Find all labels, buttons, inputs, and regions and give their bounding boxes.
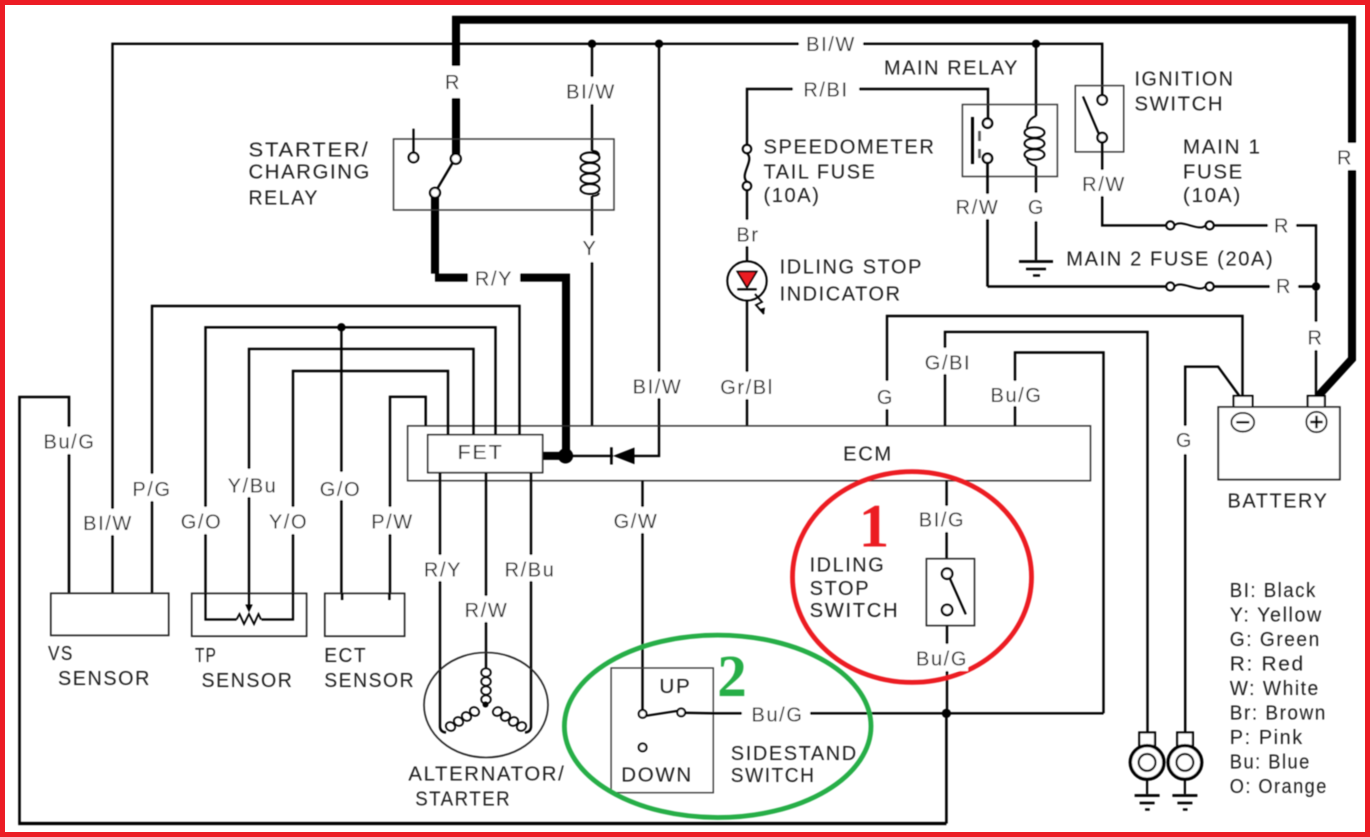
svg-text:SENSOR: SENSOR (202, 670, 294, 692)
battery plus symbol (1306, 412, 1326, 432)
wire R main 1 fuse to battery node (1214, 225, 1316, 282)
ECT sensor box (325, 593, 405, 636)
label BI/G (916, 506, 969, 532)
label R battery thin (1302, 322, 1330, 350)
svg-text:R/BI: R/BI (803, 80, 848, 102)
svg-text:Br: Brown: Br: Brown (1230, 703, 1327, 725)
wire Bu/G riser to sidestand node (945, 714, 948, 824)
svg-text:Y: Yellow: Y: Yellow (1230, 605, 1323, 627)
svg-text:O: Orange: O: Orange (1230, 776, 1328, 798)
battery box (1218, 407, 1340, 479)
svg-text:SENSOR: SENSOR (324, 670, 415, 692)
label G ground wire (1170, 426, 1200, 454)
label Br (731, 220, 763, 247)
wire G/O branch ECT sensor (340, 327, 342, 593)
wire thick R drop to starter relay (452, 60, 460, 154)
wire G main relay coil to ground (1035, 166, 1037, 260)
svg-text:P: Pink: P: Pink (1230, 727, 1304, 749)
wire Br fuse to idling stop indicator (746, 190, 748, 261)
svg-text:UP: UP (659, 676, 691, 698)
svg-text:(10A): (10A) (1183, 185, 1242, 207)
svg-text:SWITCH: SWITCH (1135, 94, 1225, 116)
wire Bu/G idling stop switch to node (946, 626, 948, 709)
svg-text:SIDESTAND: SIDESTAND (731, 743, 858, 765)
svg-text:Bu: Blue: Bu: Blue (1230, 752, 1311, 774)
label G/O ECT (315, 472, 366, 501)
svg-text:Br: Br (736, 225, 759, 247)
svg-text:RELAY: RELAY (249, 188, 320, 210)
svg-text:MAIN 2 FUSE (20A): MAIN 2 FUSE (20A) (1066, 249, 1274, 271)
label BI/W VS (82, 509, 134, 535)
svg-text:1: 1 (859, 494, 890, 561)
label R/W fet (460, 596, 513, 622)
diode D1 (611, 447, 634, 464)
svg-text:G: G (877, 387, 894, 409)
label P/W (367, 507, 417, 534)
idling stop indicator LED (727, 261, 766, 314)
wire G/BI ECM to ground terminal (945, 332, 1148, 733)
wire BI/W branch to starter relay coil (591, 44, 593, 151)
node junction G/O (337, 323, 345, 331)
wire Gr/Bl indicator to ECM (746, 301, 748, 426)
svg-text:R/Bu: R/Bu (505, 560, 556, 582)
svg-text:Y/Bu: Y/Bu (228, 476, 278, 498)
label P/G (128, 474, 176, 501)
svg-text:STOP: STOP (810, 578, 871, 600)
label Bu/G VS (38, 427, 101, 454)
wire P/G VS sensor to FET (152, 306, 520, 593)
ignition switch contacts (1098, 95, 1107, 142)
svg-text:Y/O: Y/O (269, 512, 308, 534)
svg-text:G/BI: G/BI (925, 353, 971, 375)
label G main relay (1022, 193, 1052, 221)
annotation red circle 1 (793, 472, 1032, 683)
VS sensor box (51, 593, 169, 635)
alternator star point (483, 702, 489, 708)
node junction main2/main1 R (1312, 282, 1320, 290)
label BI/W starter relay coil (562, 77, 622, 104)
svg-text:ECT: ECT (324, 645, 367, 667)
svg-text:G: G (1176, 430, 1193, 452)
svg-text:ECM: ECM (843, 444, 893, 466)
wire Bu/G ECM loop to sidestand row (1015, 353, 1104, 714)
ignition switch blade (1083, 97, 1099, 134)
main relay coil (1025, 116, 1045, 166)
label R top left (441, 66, 467, 98)
label G/O TP (176, 507, 226, 534)
wire R/W FET to alternator coil (485, 473, 487, 668)
alternator stator coils (444, 668, 528, 732)
main relay armature bar (971, 117, 974, 164)
label R/BI (793, 76, 859, 102)
svg-text:Bu/G: Bu/G (916, 649, 968, 671)
wire G/O TP sensor to FET (206, 327, 496, 593)
wire G/W ECM to sidestand switch (641, 481, 643, 710)
FET box (428, 435, 543, 473)
wire thick R/Y starter relay to ECM (435, 196, 566, 456)
wire Bu/G sidestand row (685, 712, 1103, 715)
battery minus symbol (1231, 413, 1254, 432)
wire R node to battery plus (1315, 291, 1317, 396)
svg-text:FET: FET (458, 442, 504, 464)
wire BI/W branch to main relay coil (1035, 44, 1037, 116)
ground ring terminal 2 (1168, 733, 1202, 810)
svg-text:R/Y: R/Y (475, 269, 513, 291)
label R/Y thick (468, 264, 520, 291)
sidestand switch blade (647, 711, 678, 716)
wire thick FET output to node (543, 452, 566, 460)
wire G battery minus to ground terminal (1185, 367, 1240, 733)
svg-text:Bu/G: Bu/G (752, 705, 804, 727)
svg-text:P/G: P/G (132, 479, 171, 501)
TP sensor potentiometer (206, 593, 294, 624)
svg-text:TP: TP (195, 645, 217, 667)
ground ring terminal 1 (1130, 733, 1164, 810)
node junction BI/W rail at ECM branch (655, 40, 663, 48)
svg-text:MAIN 1: MAIN 1 (1183, 137, 1262, 159)
wire main 2 fuse row (988, 285, 1317, 287)
wire BI/W rail from VS sensor across top to ignition switch (113, 44, 1103, 594)
fuse F2 main 2 fuse (1166, 282, 1214, 290)
svg-text:R: R (1274, 216, 1290, 238)
wire Bu/G VS sensor loop to sidestand row (20, 397, 70, 822)
svg-text:CHARGING: CHARGING (249, 162, 372, 184)
svg-text:STARTER: STARTER (415, 789, 511, 811)
label R main2 (1270, 273, 1298, 299)
label BI/W at ECM (629, 372, 687, 399)
label R/Bu fet (499, 555, 561, 582)
label R/W ignition (1078, 170, 1130, 196)
main relay box (962, 105, 1057, 177)
svg-text:G/O: G/O (181, 512, 222, 534)
label G/W (609, 507, 664, 533)
label R main1 (1268, 212, 1296, 238)
svg-text:R: R (1337, 148, 1353, 170)
svg-text:2: 2 (717, 643, 747, 709)
svg-text:BI/W: BI/W (566, 82, 616, 104)
node junction BI/W rail at main relay (1032, 40, 1040, 48)
sidestand switch contacts (639, 709, 685, 752)
svg-text:SPEEDOMETER: SPEEDOMETER (764, 137, 936, 159)
svg-text:MAIN RELAY: MAIN RELAY (884, 58, 1019, 80)
label G at ECM (871, 381, 901, 409)
svg-text:R/Y: R/Y (424, 560, 462, 582)
svg-text:ALTERNATOR/: ALTERNATOR/ (408, 764, 565, 786)
label R/Y fet (418, 555, 468, 582)
svg-text:R: R (445, 72, 461, 94)
wire R/Bu FET to alternator (525, 473, 531, 733)
label Bu/G at ECM (986, 381, 1048, 407)
label BI/W top rail (799, 30, 863, 56)
wire P/W ECT sensor to ECM (390, 397, 426, 594)
svg-text:Bu/G: Bu/G (991, 385, 1043, 407)
starter relay blade (437, 163, 452, 189)
label Y (578, 236, 604, 262)
wire R/W main relay to main 2 fuse row (986, 163, 989, 287)
sidestand switch box (611, 668, 713, 793)
svg-text:Bu/G: Bu/G (44, 432, 96, 454)
idling stop switch contacts (942, 569, 952, 616)
wire ECT pins (342, 593, 389, 600)
wire Bu/G bottom rail (18, 822, 946, 825)
starter relay fixed contact stub (412, 129, 414, 153)
svg-text:Y: Y (583, 238, 598, 260)
label G/BI (920, 348, 976, 375)
main relay dashed link (978, 131, 981, 158)
battery terminal posts (1234, 396, 1325, 407)
svg-text:VS: VS (48, 643, 74, 665)
starter/charging relay box (394, 139, 615, 210)
svg-text:SWITCH: SWITCH (731, 765, 816, 787)
svg-text:R: R (1276, 276, 1292, 298)
svg-text:STARTER/: STARTER/ (249, 140, 370, 162)
svg-text:G: G (1028, 197, 1045, 219)
node junction Bu/G (942, 709, 951, 718)
svg-text:R: R (1307, 328, 1323, 350)
svg-text:FUSE: FUSE (1183, 162, 1244, 184)
label Gr/Bl (716, 372, 778, 399)
svg-text:BATTERY: BATTERY (1228, 490, 1329, 512)
svg-text:G/W: G/W (614, 511, 659, 533)
wire Y/Bu TP sensor to FET (249, 349, 474, 593)
starter relay coil (581, 151, 600, 196)
wire thick R top rail (452, 20, 1356, 396)
svg-text:(10A): (10A) (764, 185, 821, 207)
label Y/O (263, 507, 313, 534)
svg-text:R: Red: R: Red (1230, 654, 1305, 676)
wire R/W ignition switch to main 1 fuse (1102, 142, 1166, 225)
idling stop switch blade (950, 578, 966, 614)
ground main relay (1019, 262, 1053, 276)
svg-text:BI/G: BI/G (919, 510, 965, 532)
svg-text:IDLING: IDLING (810, 555, 886, 577)
wire BI/W branch to ECM diode (634, 44, 659, 456)
svg-text:G/O: G/O (320, 479, 361, 501)
svg-text:TAIL FUSE: TAIL FUSE (764, 162, 877, 184)
svg-text:BI/W: BI/W (633, 377, 683, 399)
annotation green ellipse 2 (564, 635, 871, 817)
svg-text:SENSOR: SENSOR (58, 668, 151, 690)
label Y/Bu (223, 469, 281, 498)
wire Y/O TP sensor to FET (293, 371, 448, 593)
label Bu/G idling stop (914, 644, 968, 671)
svg-text:SWITCH: SWITCH (810, 600, 900, 622)
svg-text:INDICATOR: INDICATOR (780, 283, 902, 305)
wire Y starter relay coil to ECM (591, 196, 593, 426)
node junction BI/W rail at starter relay (588, 40, 596, 48)
svg-text:BI/W: BI/W (806, 34, 856, 56)
svg-text:IDLING STOP: IDLING STOP (780, 257, 923, 279)
ECM box (408, 426, 1091, 481)
wire R/Y FET to alternator (440, 473, 446, 733)
svg-text:BI/W: BI/W (83, 513, 133, 535)
svg-text:R/W: R/W (1082, 174, 1126, 196)
wire R/BI rail to speedometer fuse and main relay (747, 89, 988, 145)
svg-text:R/W: R/W (956, 197, 1000, 219)
svg-text:W: White: W: White (1230, 678, 1320, 700)
ignition switch box (1075, 86, 1123, 152)
label R thick right (1334, 143, 1360, 170)
svg-text:G: Green: G: Green (1230, 629, 1321, 651)
svg-text:R/W: R/W (465, 600, 509, 622)
fuse F1 main 1 fuse (1166, 221, 1214, 229)
label Bu/G sidestand row (742, 700, 810, 727)
alternator/starter circle (424, 653, 548, 758)
svg-text:P/W: P/W (371, 512, 414, 534)
node thick junction at FET output (558, 448, 573, 463)
svg-text:DOWN: DOWN (621, 765, 693, 787)
wire diode to node (573, 455, 613, 457)
wire BI/G ECM to idling stop switch (945, 481, 947, 559)
wire G ECM to battery minus (887, 316, 1243, 426)
starter relay contact circles (409, 153, 461, 198)
label R/W main relay (952, 194, 1004, 219)
svg-text:IGNITION: IGNITION (1135, 69, 1235, 91)
fuse F3 speedometer tail fuse (743, 145, 752, 191)
svg-text:Gr/Bl: Gr/Bl (720, 377, 774, 399)
main relay contact circles (983, 119, 992, 163)
TP sensor box (192, 593, 307, 636)
idling stop switch box (926, 559, 974, 626)
svg-text:BI: Black: BI: Black (1230, 580, 1317, 602)
